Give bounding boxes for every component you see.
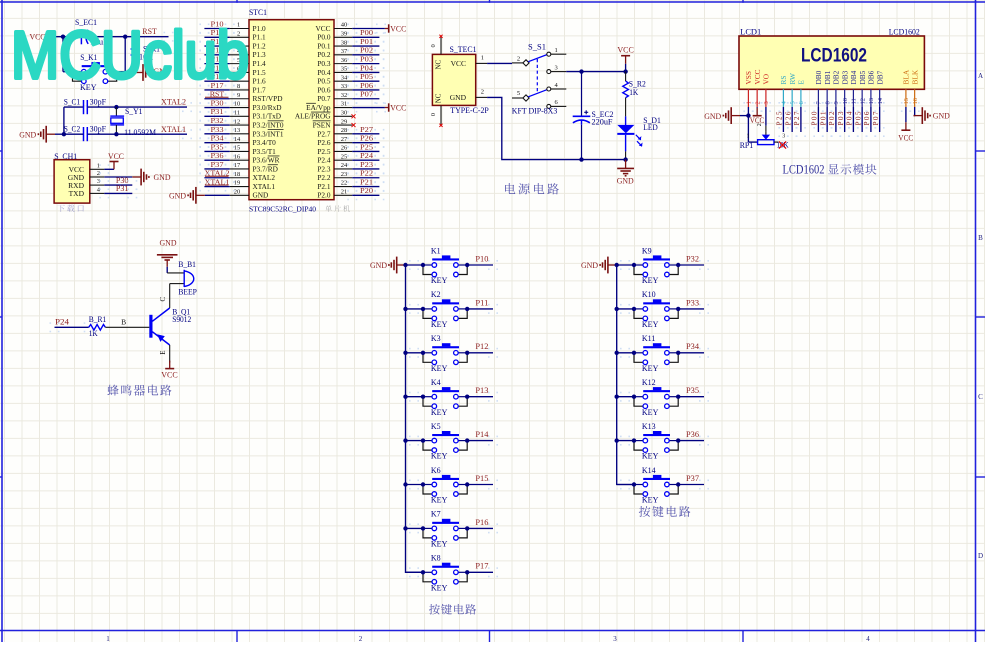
bus wire (keys right) [617, 265, 634, 485]
node junction [746, 113, 750, 117]
svg-text:P26: P26 [360, 134, 373, 143]
svg-text:P24: P24 [360, 151, 373, 160]
ground (keys left) [370, 257, 406, 274]
svg-text:1: 1 [746, 101, 753, 104]
wire [487, 62, 512, 64]
wire [204, 115, 229, 117]
wire [467, 484, 493, 486]
svg-text:P3.5/T1: P3.5/T1 [253, 147, 277, 156]
svg-text:K14: K14 [642, 466, 656, 475]
svg-text:BEEP: BEEP [178, 288, 197, 297]
node junction [403, 482, 407, 486]
pin 5 RW [788, 73, 797, 107]
wire [678, 352, 704, 354]
capacitor S_C1 [64, 98, 107, 115]
svg-text:P00: P00 [810, 111, 819, 125]
svg-text:36: 36 [341, 57, 348, 64]
svg-text:P0.0: P0.0 [317, 33, 331, 42]
svg-text:P03: P03 [360, 55, 373, 64]
node junction [421, 351, 425, 355]
wire [352, 133, 379, 135]
connector S_CH1 [54, 152, 90, 203]
svg-text:A: A [978, 72, 983, 80]
svg-text:VCC: VCC [898, 132, 913, 142]
svg-text:P27: P27 [792, 111, 801, 125]
svg-text:P01: P01 [360, 37, 373, 46]
caption danpianji [325, 205, 350, 212]
svg-text:TYPE-C-2P: TYPE-C-2P [450, 106, 489, 115]
svg-text:1K: 1K [629, 88, 638, 97]
svg-text:NC: NC [435, 59, 443, 69]
svg-text:KEY: KEY [431, 496, 448, 505]
svg-text:P2.4: P2.4 [317, 156, 331, 165]
svg-text:KEY: KEY [431, 276, 448, 285]
svg-text:C: C [978, 393, 983, 401]
wire [352, 63, 379, 65]
pin 16 [230, 153, 280, 164]
wire [204, 45, 229, 47]
svg-text:B: B [978, 234, 983, 242]
svg-text:11: 11 [851, 98, 858, 104]
pin 6 E [797, 80, 806, 108]
pin 11 DB4 [849, 70, 858, 107]
wire [870, 107, 872, 132]
ground (crystal) [19, 126, 55, 143]
wire [88, 106, 188, 108]
svg-text:P06: P06 [862, 111, 871, 125]
svg-text:STC89C52RC_DIP40: STC89C52RC_DIP40 [249, 204, 316, 213]
wire [861, 107, 863, 132]
svg-text:P3.3/INT1: P3.3/INT1 [253, 129, 284, 138]
svg-text:P25: P25 [360, 142, 373, 151]
svg-text:P17: P17 [475, 562, 488, 571]
svg-text:P32: P32 [211, 116, 224, 125]
wire [204, 36, 229, 38]
svg-text:P22: P22 [360, 169, 373, 178]
svg-text:K13: K13 [642, 422, 656, 431]
pin 8 [230, 83, 266, 94]
wire [55, 133, 64, 135]
node junction [676, 395, 680, 399]
ground (mcu) [169, 187, 230, 204]
pin 37 [317, 48, 352, 59]
svg-text:LCD1602: LCD1602 [783, 163, 825, 177]
key K10 [634, 290, 678, 329]
key K11 [634, 334, 678, 373]
svg-text:S_Y1: S_Y1 [125, 107, 143, 116]
pin 2 [230, 30, 266, 41]
svg-text:P02: P02 [827, 111, 836, 125]
svg-text:P37: P37 [211, 160, 224, 169]
pin 11 [230, 110, 281, 121]
svg-text:XTAL2: XTAL2 [253, 173, 276, 182]
ground (power) [617, 160, 634, 186]
buzzer B_B1 [167, 260, 197, 296]
svg-text:KEY: KEY [642, 496, 659, 505]
svg-text:VCC: VCC [451, 59, 466, 68]
ground (reset) [134, 64, 171, 81]
svg-text:31: 31 [341, 101, 348, 108]
node junction [61, 35, 65, 39]
svg-text:33: 33 [341, 83, 348, 90]
svg-text:2: 2 [754, 101, 761, 104]
svg-text:LCD1602: LCD1602 [801, 45, 867, 67]
power port VCC (reset) [30, 33, 49, 42]
crystal S_Y1 [110, 107, 156, 137]
wire [352, 45, 379, 47]
svg-text:GND: GND [581, 261, 598, 270]
pin 25 [317, 153, 352, 164]
pin 39 [317, 30, 352, 41]
pin 13 DB6 [867, 70, 876, 107]
svg-text:S9012: S9012 [172, 315, 191, 324]
svg-text:D: D [978, 552, 983, 560]
switch S_S1 [512, 42, 567, 115]
key K5 [423, 422, 467, 461]
svg-text:13: 13 [868, 98, 875, 105]
svg-text:1K: 1K [89, 329, 98, 338]
svg-text:P23: P23 [360, 160, 373, 169]
pin 3 [230, 39, 266, 50]
svg-text:P0.1: P0.1 [317, 41, 331, 50]
svg-text:20: 20 [234, 189, 241, 196]
svg-text:K12: K12 [642, 378, 656, 387]
wire [352, 186, 379, 188]
svg-text:S_R2: S_R2 [629, 80, 646, 89]
wire [204, 80, 229, 82]
node junction [632, 307, 636, 311]
svg-text:E: E [159, 351, 167, 355]
wire [55, 326, 89, 328]
wire [104, 192, 132, 194]
wire [467, 571, 493, 573]
svg-text:P35: P35 [211, 142, 224, 151]
svg-text:P13: P13 [475, 386, 488, 395]
svg-text:P04: P04 [360, 63, 373, 72]
svg-text:18: 18 [234, 171, 241, 178]
power port VCC (lcd BLA) [898, 107, 913, 142]
wire [678, 440, 704, 442]
caption fengmingqidianlu [107, 385, 171, 396]
wire [204, 159, 229, 161]
wire [617, 440, 634, 442]
svg-text:30pF: 30pF [90, 125, 107, 134]
svg-text:P05: P05 [853, 111, 862, 125]
svg-text:P26: P26 [783, 111, 792, 125]
svg-text:P0.7: P0.7 [317, 94, 331, 103]
svg-text:P20: P20 [360, 186, 373, 195]
node junction [465, 395, 469, 399]
svg-text:16: 16 [912, 97, 919, 104]
capacitor S_EC1 [75, 18, 109, 46]
wire [204, 177, 229, 179]
pin 16 BLK [910, 69, 919, 107]
svg-text:ALE/PROG: ALE/PROG [295, 112, 331, 121]
svg-text:P2.3: P2.3 [317, 164, 331, 173]
svg-text:26: 26 [341, 145, 348, 152]
svg-text:P3.2/INT0: P3.2/INT0 [253, 120, 284, 129]
svg-text:38: 38 [341, 39, 348, 46]
svg-text:P0.5: P0.5 [317, 77, 331, 86]
wire [63, 107, 65, 134]
svg-text:KEY: KEY [431, 583, 448, 592]
pin 10 [230, 101, 282, 112]
node junction [632, 438, 636, 442]
power port VCC (power) [617, 45, 634, 71]
node junction [421, 263, 425, 267]
wire [467, 396, 493, 398]
wire [406, 484, 424, 486]
node junction [403, 395, 407, 399]
key S_K1 [73, 53, 117, 92]
potentiometer RP1 [740, 123, 789, 150]
svg-text:B_B1: B_B1 [178, 260, 196, 269]
wire [467, 440, 493, 442]
svg-text:P1.4: P1.4 [253, 59, 267, 68]
wire [204, 28, 229, 30]
wire [204, 124, 229, 126]
svg-text:28: 28 [341, 127, 348, 134]
svg-text:P11: P11 [475, 298, 488, 307]
svg-text:P05: P05 [360, 72, 373, 81]
wire [765, 107, 767, 126]
svg-text:P2.5: P2.5 [317, 147, 331, 156]
key K7 [423, 510, 467, 549]
wire [204, 54, 229, 56]
svg-text:P36: P36 [211, 151, 224, 160]
node junction [579, 157, 583, 161]
svg-text:KEY: KEY [642, 408, 659, 417]
no-connect pin [352, 123, 356, 127]
svg-text:KEY: KEY [642, 452, 659, 461]
caption anjiandianlu (right) [639, 506, 691, 517]
svg-text:3: 3 [763, 101, 770, 104]
wire [678, 396, 704, 398]
svg-text:VCC: VCC [617, 45, 634, 54]
wire [352, 89, 379, 91]
svg-text:K6: K6 [431, 466, 441, 475]
wire [406, 308, 424, 310]
wire [791, 107, 793, 132]
svg-text:KEY: KEY [431, 320, 448, 329]
svg-text:22: 22 [341, 180, 348, 187]
svg-text:E: E [797, 80, 806, 85]
node junction [132, 35, 136, 39]
svg-text:2: 2 [359, 635, 363, 642]
svg-text:K7: K7 [431, 510, 441, 519]
svg-text:0: 0 [430, 113, 437, 116]
pin 3 [90, 184, 105, 186]
wire [487, 97, 625, 159]
svg-text:P3.1/TxD: P3.1/TxD [253, 112, 282, 121]
svg-text:K5: K5 [431, 422, 441, 431]
node junction [632, 395, 636, 399]
svg-text:P0.3: P0.3 [317, 59, 331, 68]
connector S_TEC1 (TYPE-C) [432, 45, 489, 115]
key K1 [423, 246, 467, 285]
capacitor S_C2 [64, 125, 107, 142]
svg-text:VSS: VSS [744, 71, 753, 84]
wire [352, 168, 379, 170]
svg-text:GND: GND [154, 173, 171, 182]
svg-text:P3.0/RxD: P3.0/RxD [253, 103, 282, 112]
caption anjiandianlu (left) [429, 604, 476, 615]
wire [835, 107, 837, 132]
wire [617, 396, 634, 398]
wire [617, 264, 634, 266]
svg-text:11: 11 [234, 110, 240, 117]
node junction [421, 307, 425, 311]
node junction [465, 351, 469, 355]
svg-text:P02: P02 [360, 46, 373, 55]
svg-text:LCD1: LCD1 [740, 28, 761, 37]
node junction [62, 132, 66, 136]
svg-text:BLA: BLA [902, 69, 911, 84]
pin 15 BLA [902, 69, 911, 107]
svg-text:B_R1: B_R1 [89, 315, 107, 324]
pin 34 [317, 74, 352, 85]
node junction [615, 307, 619, 311]
svg-text:8: 8 [824, 101, 831, 104]
key K4 [423, 378, 467, 417]
pin 30 [295, 110, 352, 121]
node junction [465, 526, 469, 530]
node junction [403, 526, 407, 530]
svg-text:P27: P27 [360, 125, 373, 134]
wire [467, 527, 493, 529]
wire [467, 264, 493, 266]
lcd module LCD1 body [739, 28, 924, 90]
svg-text:TXD: TXD [69, 189, 85, 198]
pin 36 [317, 57, 352, 68]
pin 13 [230, 127, 284, 138]
pin 14 [230, 136, 276, 147]
wire [352, 36, 379, 38]
svg-text:P25: P25 [775, 111, 784, 125]
node junction [421, 526, 425, 530]
wire [352, 142, 379, 144]
pin 27 [317, 136, 352, 147]
pin 38 [317, 39, 352, 50]
svg-text:P04: P04 [845, 111, 854, 125]
wire [352, 150, 379, 152]
svg-text:9: 9 [833, 101, 840, 104]
pin 28 [317, 127, 352, 138]
node junction [123, 35, 127, 39]
svg-text:RS: RS [779, 76, 788, 85]
key K9 [634, 246, 678, 285]
svg-text:RW: RW [788, 73, 797, 84]
svg-text:30pF: 30pF [90, 98, 107, 107]
node junction [403, 351, 407, 355]
svg-text:GND: GND [617, 176, 634, 185]
svg-text:P2.2: P2.2 [317, 173, 331, 182]
wire [87, 36, 169, 38]
svg-text:23: 23 [341, 171, 348, 178]
svg-text:30: 30 [341, 110, 348, 117]
pin 4 [230, 48, 266, 59]
node junction [623, 157, 627, 161]
svg-text:P30: P30 [211, 98, 224, 107]
svg-text:VCC: VCC [161, 370, 178, 379]
svg-text:P33: P33 [686, 298, 699, 307]
svg-text:S_TEC1: S_TEC1 [450, 45, 477, 54]
svg-text:2: 2 [517, 55, 520, 62]
svg-text:DB7: DB7 [875, 70, 884, 84]
node junction [676, 482, 680, 486]
svg-text:P34: P34 [211, 134, 224, 143]
pin 0 (bottom NC) [430, 105, 443, 127]
svg-text:K3: K3 [431, 334, 441, 343]
wire [104, 184, 132, 186]
node junction [615, 438, 619, 442]
pin 33 [317, 83, 352, 94]
svg-text:29: 29 [341, 118, 348, 125]
wire [566, 71, 625, 73]
pin 7 DB0 [814, 70, 823, 107]
pin 17 [230, 162, 278, 173]
svg-text:3: 3 [555, 64, 558, 71]
svg-text:P00: P00 [360, 28, 373, 37]
svg-text:DB5: DB5 [858, 70, 867, 84]
wire [204, 98, 229, 100]
svg-text:3: 3 [782, 134, 785, 140]
pin 14 DB7 [875, 70, 884, 107]
resistor B_R1 [89, 315, 107, 338]
svg-text:5: 5 [517, 90, 520, 97]
svg-text:1: 1 [747, 134, 750, 140]
svg-text:DB4: DB4 [849, 70, 858, 84]
node junction [465, 482, 469, 486]
node junction [421, 395, 425, 399]
wire [204, 89, 229, 91]
svg-text:P1.5: P1.5 [253, 68, 267, 77]
svg-text:0: 0 [430, 44, 437, 47]
svg-text:P2.7: P2.7 [317, 129, 331, 138]
wire [204, 142, 229, 144]
svg-text:STC1: STC1 [249, 8, 267, 17]
pin 8 DB1 [823, 70, 832, 107]
wire [826, 107, 828, 132]
pin 1 VSS [744, 71, 753, 107]
svg-text:P10: P10 [475, 254, 488, 263]
svg-text:P03: P03 [836, 111, 845, 125]
wire [678, 264, 704, 266]
svg-text:PSEN: PSEN [313, 120, 332, 129]
key K2 [423, 290, 467, 329]
node junction [632, 482, 636, 486]
svg-text:NC: NC [435, 93, 443, 103]
node junction [114, 132, 118, 136]
node junction [615, 395, 619, 399]
mcu U1 STC89C52RC body [249, 8, 334, 213]
svg-text:P1.3: P1.3 [253, 50, 267, 59]
pin 1 [476, 62, 487, 64]
svg-text:S_S1: S_S1 [528, 42, 546, 51]
node junction [579, 69, 583, 73]
svg-text:DB2: DB2 [832, 70, 841, 84]
pin 9 DB2 [832, 70, 841, 107]
svg-text:P3.6/WR: P3.6/WR [253, 156, 280, 165]
wire [467, 352, 493, 354]
wire [204, 150, 229, 152]
wire [352, 54, 379, 56]
power port VCC (mcu) [352, 24, 406, 33]
pin 6 [230, 66, 266, 77]
wire [406, 571, 424, 573]
svg-text:GND: GND [253, 191, 269, 200]
svg-text:2: 2 [481, 89, 484, 96]
